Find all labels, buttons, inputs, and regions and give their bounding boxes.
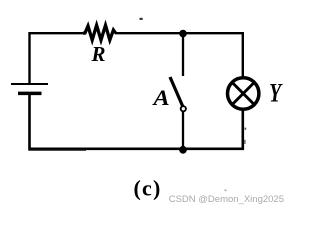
battery short thick plate (18, 92, 42, 96)
artifact ticks right rail (245, 128, 247, 130)
svg-text:Y: Y (269, 79, 283, 108)
wire middle branch lower (182, 112, 184, 150)
svg-text:(c): (c) (133, 176, 161, 201)
artifact dash top (139, 18, 143, 20)
lamp Y cross (233, 83, 253, 103)
svg-text:R: R (91, 42, 106, 66)
battery long plate (11, 83, 48, 85)
node bottom junction (179, 146, 187, 154)
wire bottom rail shadow (scan thickening) (28, 149, 86, 151)
node top junction (179, 30, 187, 38)
wire top-right from resistor to right rail down to lamp (115, 33, 243, 77)
artifact dot above watermark (225, 190, 227, 192)
switch A blade (170, 77, 183, 106)
svg-text:CSDN @Demon_Xing2025: CSDN @Demon_Xing2025 (169, 194, 284, 205)
wire middle branch upper (182, 34, 184, 76)
resistor R (83, 25, 116, 40)
switch A pivot circle (181, 106, 186, 111)
wire top-left from battery up and across to resistor (30, 33, 85, 84)
lamp Y circle (228, 78, 259, 109)
svg-text:A: A (151, 86, 169, 111)
wire bottom loop: battery down, across bottom, up to lamp (30, 93, 243, 148)
